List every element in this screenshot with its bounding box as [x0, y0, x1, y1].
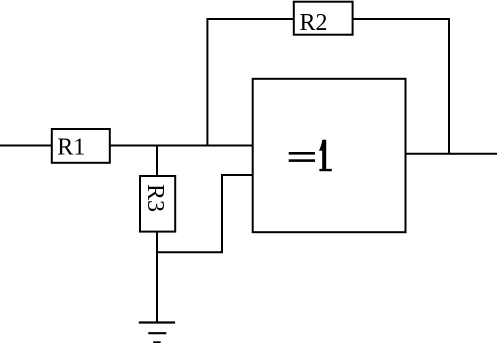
svg-text:R3: R3 [142, 184, 168, 212]
svg-text:R2: R2 [300, 10, 328, 36]
resistor R3 [140, 176, 175, 232]
XOR gate U1 (IEC =1 symbol) [253, 79, 406, 232]
wire [0, 145, 52, 147]
wire [156, 175, 253, 252]
wire [207, 19, 293, 147]
resistor R1 [52, 129, 110, 163]
wire [353, 19, 449, 154]
resistor R2 [294, 2, 353, 36]
wire [156, 145, 158, 177]
wire [110, 145, 253, 147]
wire [156, 232, 158, 323]
ground [139, 323, 175, 343]
svg-text:R1: R1 [57, 134, 85, 160]
wire [406, 153, 497, 155]
